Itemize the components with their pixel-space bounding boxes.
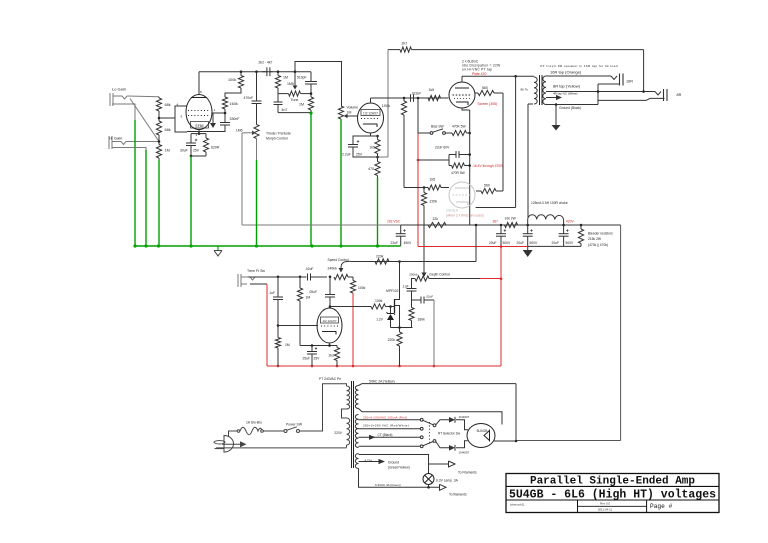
svg-text:Morph Control: Morph Control [266,136,288,140]
svg-text:25V: 25V [356,153,363,157]
svg-text:To Filaments: To Filaments [458,470,477,474]
svg-text:500V: 500V [530,241,539,245]
svg-text:68k: 68k [165,103,171,107]
ground symbol OT [555,105,557,126]
resistor 1M (tone shunt) [308,97,313,110]
resistor 1k5 (grid stopper) [428,95,441,100]
12AX7 cathode bar [363,124,377,127]
lamp 6.3V [423,474,434,485]
svg-text:125mA 0.5H 100R choke: 125mA 0.5H 100R choke [531,201,568,205]
AC plug [224,436,234,453]
transformer OT primary [534,77,537,104]
tube 1/2 12AX7 V2a [358,103,384,133]
resistor bleeder 215k 2W [580,224,583,227]
wire: 12AX7 plate [370,98,372,103]
transformer OT core [539,75,541,105]
node grid junction [158,97,160,98]
resistor 220k (osc tail) [399,328,401,333]
svg-text:8R tap (Yellow): 8R tap (Yellow) [553,83,581,88]
svg-text:220V: 220V [334,431,343,435]
svg-text:22k: 22k [433,217,439,221]
wire: trem tip [248,276,278,278]
svg-text:560: 560 [482,86,488,90]
svg-text:290+0+290VAC 195mA (Red): 290+0+290VAC 195mA (Red) [363,415,407,419]
svg-text:.02uF: .02uF [426,295,434,299]
svg-text:2011-04-11: 2011-04-11 [598,508,613,512]
svg-text:160k: 160k [230,102,238,106]
svg-text:22uF 60V: 22uF 60V [435,146,450,150]
wire: rectifier output [493,440,516,442]
svg-text:To filaments: To filaments [449,492,467,496]
switch RT Selector Sw [420,418,423,421]
svg-text:.02uF: .02uF [305,267,313,271]
svg-text:1M6: 1M6 [236,129,243,133]
tube 5U4GB rectifier [467,424,495,448]
wire: red drop from 100k [352,293,354,366]
wire: tone bottom [278,112,311,114]
resistor 1M (trem grid leak) [277,326,279,338]
svg-text:450V: 450V [404,241,413,245]
wire: 5V top to rectifier B+ [359,384,517,386]
diode 1N4007 upper [436,420,449,425]
capacitor 30uF 25V (cathode bypass) [190,134,192,143]
svg-text:22uF: 22uF [391,241,399,245]
wire: filter ground bus [528,245,581,247]
svg-text:.022uF: .022uF [411,92,421,96]
wire: mains return [346,445,348,448]
resistor 1k5 (grid stopper lower) [423,186,426,189]
wire: HT center tap [359,436,421,438]
tube 6L6GC V3 [449,82,475,108]
wire: 12AX7 cathode [371,133,378,136]
svg-text:1.2V: 1.2V [376,318,384,322]
switch Power SW [264,430,285,432]
wire: screen bus [502,93,504,191]
capacitor 330nF [220,122,230,124]
resistor 22k (rail) [428,222,446,227]
tube 6L6GC ghost (2nd) [449,182,475,208]
svg-text:100k: 100k [382,104,390,108]
wire: B+ drop to trem [475,225,477,262]
wire: Lo tip to 68k [127,95,159,98]
tube EF86 V1 [186,95,212,130]
svg-text:Triode / Pentode: Triode / Pentode [266,132,291,136]
wire: lower grid feed from 12AX7 plate [403,119,405,188]
wire: trem osc B+ line [352,261,476,263]
svg-text:1k5: 1k5 [369,146,375,150]
svg-text:RT Selector Sw: RT Selector Sw [438,432,461,436]
wire: Lo sleeve ground [112,104,135,120]
resistor 220k (osc feed) [375,259,389,264]
resistor 100k (trem) [352,277,354,281]
svg-text:620R: 620R [211,146,220,150]
svg-text:16R: 16R [626,79,633,83]
capacitor 22uF 60V (bias filter) [448,155,450,166]
resistor 100k (EF86 plate load) [240,72,242,76]
svg-text:86.7k: 86.7k [521,88,529,92]
svg-text:280+0+280 VAC (Red/White): 280+0+280 VAC (Red/White) [363,424,409,428]
wire: speed to 100k [348,276,353,278]
svg-text:Hi Gain: Hi Gain [109,136,122,141]
resistor 10k 2W [505,222,518,227]
resistor 1M (trem divider) [299,276,302,279]
wire: plate node run [199,71,311,73]
capacitor 4n7 [277,93,279,102]
wire: 6.3V ground tap [359,461,379,463]
wire: to depth control wiper [423,206,425,273]
svg-text:100k: 100k [228,78,236,82]
svg-text:(Green/Yellow): (Green/Yellow) [388,466,410,470]
wire: 8R jack sleeve [598,99,646,101]
svg-text:CT (Black): CT (Black) [378,433,393,437]
svg-text:4n7: 4n7 [282,108,288,112]
svg-text:Trem Ft Sw: Trem Ft Sw [247,269,265,273]
svg-text:2k7: 2k7 [402,42,408,46]
ground symbol main bus [217,246,219,251]
resistor 160k [222,97,227,109]
svg-text:MPF102: MPF102 [386,289,399,293]
wire: 16R tap [546,75,611,77]
svg-text:.1uF: .1uF [402,285,409,289]
inductor choke 125mA [527,220,529,226]
svg-text:10k 2W: 10k 2W [505,217,517,221]
resistor 100k (trem out) [371,304,386,309]
wire: red bias rail [417,133,419,247]
wire: trem plate out [329,305,332,308]
arrow screen tap [212,113,214,123]
wire: mains to PT [300,384,344,431]
svg-text:2nd 6L6: 2nd 6L6 [446,209,458,213]
pot 1M6 Triode/Pentode morph [254,125,259,139]
svg-text:25V: 25V [314,357,321,361]
svg-text:510pF: 510pF [297,76,307,80]
wire: to filaments upper [429,463,449,465]
svg-text:330nF: 330nF [230,117,240,121]
wire: Lo jack diagonal to 1M node [130,99,159,142]
resistor 470R 5W (bias bleed) [452,163,465,168]
capacitor 2.2uF 25V bypass [353,136,378,145]
wire: 1M to green ground [158,158,160,160]
svg-text:.05uF: .05uF [309,290,317,294]
wire: red bias to filters [418,246,528,248]
svg-text:292 VDC: 292 VDC [387,220,401,224]
svg-text:500V: 500V [566,241,575,245]
svg-text:tubenoob11: tubenoob11 [510,503,525,507]
svg-text:367: 367 [492,220,498,224]
svg-text:Screen (305): Screen (305) [478,102,498,106]
svg-text:Bleeder resistors: Bleeder resistors [588,232,613,236]
wire: NFB top run to 2k7 [388,49,400,51]
svg-text:-16.4V through 470R: -16.4V through 470R [472,164,503,168]
capacitor 20uF 500V (filter 4) [563,225,565,234]
svg-text:Tune: Tune [291,98,299,102]
svg-text:68k: 68k [165,128,171,132]
svg-text:25V: 25V [193,149,200,153]
speaker jack 8R [655,92,661,96]
svg-text:100k: 100k [358,286,366,290]
svg-text:215k 2W: 215k 2W [588,237,602,241]
resistor 470 (NFB leg) [377,157,379,162]
svg-text:20uF: 20uF [517,241,525,245]
svg-text:PT 240VAC Pri: PT 240VAC Pri [319,377,341,381]
wire: cathode to green ground [191,155,206,157]
wire: green ground from volume [340,119,342,246]
wire: HT tap 4 [359,445,421,447]
wire: OT primary bottom to B+ node [528,103,533,105]
capacitor 470nF [256,72,258,101]
capacitor .022uF coupling [410,94,412,102]
wire: HT tap 1 [359,419,421,421]
svg-text:500V: 500V [503,241,512,245]
wire: Hi sleeve ground [112,148,146,151]
wire: NFB drop at right [643,50,645,92]
wire: 6.3V top tap [359,455,429,474]
transformer PT 5V winding [355,386,358,409]
svg-text:470K 5W: 470K 5W [452,125,466,129]
wire: screen node to rail (gray) [241,133,243,225]
wire: trem out drop [433,300,435,366]
transformer PT primary [343,384,347,386]
svg-text:240kb: 240kb [328,266,337,270]
svg-text:1N4007: 1N4007 [459,415,470,419]
svg-text:25uF: 25uF [303,357,311,361]
svg-text:1M: 1M [347,111,352,115]
wire: 4R stub [546,97,556,99]
svg-text:2k2: 2k2 [329,354,335,358]
svg-text:20uF: 20uF [489,241,497,245]
svg-text:Bias SW: Bias SW [431,125,445,129]
svg-text:250kb: 250kb [409,273,418,277]
wire: 330nF to grid return [187,125,225,132]
grid shield box EF86 [175,106,187,132]
wire: red ground bus trem [267,365,501,367]
svg-text:Parallel Single-Ended Amp: Parallel Single-Ended Amp [530,476,695,488]
svg-text:470nF: 470nF [244,96,254,100]
wire: 6L6 cathode drop [462,108,470,110]
svg-text:560: 560 [484,184,490,188]
capacitor 25uF 25V (trem cathode) [311,346,313,352]
wire: NFB vertical to 12AX7 cathode [387,50,389,157]
wire: bias feed vertical [417,98,419,133]
resistor 100k (12AX7 plate load) [401,101,406,115]
wire: red supply vertical [500,247,502,367]
svg-text:EF86: EF86 [195,124,203,128]
svg-text:1/2 12AX7: 1/2 12AX7 [322,319,336,323]
resistor 2k2 (trem cathode) [336,346,338,348]
capacitor .1uF (depth) [412,279,416,289]
diode 1N4007 lower [436,442,449,448]
wire: pin1 screen line [212,112,225,114]
wire: grid line to EF86 [159,117,175,119]
capacitor .02uF (trem out) [412,299,422,301]
svg-text:6.3V Lamp .3A: 6.3V Lamp .3A [436,478,459,482]
wire: plate bus to ghost plate [515,76,517,207]
EF86 grid dots [188,110,210,112]
svg-text:Lo Gain: Lo Gain [112,87,126,92]
svg-text:Depth Control: Depth Control [430,273,451,277]
wire: tone out riser [295,62,342,107]
svg-text:470: 470 [368,167,374,171]
wire: EF86 plate up [198,72,200,95]
node 1M junction [158,135,160,145]
EF86 label box [191,122,209,129]
svg-text:30uF: 30uF [180,149,188,153]
svg-text:1k5: 1k5 [430,178,436,182]
wire: bias tap to red rail [418,159,449,161]
capacitor 20uF 500V (filter 2) [500,225,502,234]
svg-text:1M: 1M [165,149,170,153]
svg-text:2k2 - 4k7: 2k2 - 4k7 [259,60,273,64]
svg-text:6.3VAC 4A (Green): 6.3VAC 4A (Green) [375,483,401,487]
svg-text:Volume: Volume [347,106,359,110]
resistor 68k (mixer) [156,121,161,135]
wire: green ground drop from Hi sleeve [145,150,147,246]
pot 1M5 Tune [278,88,289,94]
svg-text:1M: 1M [306,296,311,300]
arrow to filaments lower [440,484,447,490]
wire: 5V bottom to rectifier [359,409,503,425]
wire: plate line to 6L6 grid [371,97,449,99]
wire: green ground bus [135,245,401,247]
resistor 2k7 (NFB) [400,47,412,52]
capacitor 22uF 450V (filter 1) [400,225,402,234]
svg-text:(when 2 x 6V6s are used): (when 2 x 6V6s are used) [446,213,484,217]
svg-text:Plate 420: Plate 420 [472,72,486,76]
wire: tune right to 1M [301,93,312,95]
switch Bias SW [418,132,430,134]
svg-text:1M: 1M [299,103,304,107]
transformer PT core [351,381,353,468]
svg-text:1N4007: 1N4007 [459,450,470,454]
svg-text:OT Insert 8R speaker in 16R t: OT Insert 8R speaker in 16R tap for 4k l… [540,64,618,68]
capacitor 20uF 500V (filter 3) [527,225,529,234]
resistor 620R (EF86 cathode) [205,134,207,138]
svg-text:Ground (Black): Ground (Black) [559,106,581,110]
wire: EF86 cathode [198,130,200,134]
svg-text:1k5: 1k5 [429,88,435,92]
wire: trem sleeve to red bus [250,283,267,285]
svg-text:1/2 12AX7: 1/2 12AX7 [363,111,378,115]
wire: sleeve drop [597,84,599,105]
wire: 8R tap [546,91,655,93]
svg-text:5U4GB - 6L6 (High HT) voltages: 5U4GB - 6L6 (High HT) voltages [509,489,716,502]
wire: NFB top run to speaker 8R tap [412,49,644,51]
capacitor 0.1uF (trem) [277,277,279,297]
wire: ground tap [546,104,598,106]
transformer OT secondary [543,76,546,105]
transformer PT HT winding [355,415,358,448]
resistor 1M (input load) [156,145,161,159]
resistor 1k5 (cathode) [375,140,380,154]
wire: trem grid line [278,325,318,327]
wire: green ground from 470 [377,176,379,178]
wire: depth to red supply [429,278,480,280]
svg-text:5U4GB: 5U4GB [477,429,489,433]
svg-text:1A Slo-Blo: 1A Slo-Blo [246,421,262,425]
ground symbol filters [527,246,529,250]
wire: B+ from rectifier riser [620,225,622,441]
diode zener 1.2V [390,307,392,314]
wire: 6L6 plate to OT [461,76,463,82]
svg-text:Page #: Page # [650,503,673,510]
svg-text:(470k || 470k): (470k || 470k) [588,243,608,247]
svg-text:470R 5W: 470R 5W [451,171,466,175]
pot Volume 1M [338,106,343,119]
title block frame [506,474,719,513]
svg-text:220k: 220k [376,254,384,258]
wire: morph wiper to rail [242,132,246,134]
wire: green ground drop from Lo sleeve [134,120,136,246]
svg-text:Rev 0.0: Rev 0.0 [600,502,610,506]
tube 1/2 12AX7 V2b (trem) [317,308,342,343]
svg-text:.1uF: .1uF [268,291,275,295]
svg-text:2.2uF: 2.2uF [342,153,351,157]
wire: volume wiper to grid [348,115,358,117]
svg-text:100k: 100k [375,299,383,303]
svg-text:220k: 220k [430,200,438,204]
wire: trem cathode [329,343,331,346]
svg-text:1M: 1M [285,343,290,347]
resistor 560 (screen lower) [476,190,481,192]
resistor 560 (screen upper) [475,92,478,94]
wire: osc bottom [391,327,413,329]
wire: HT tap 2 [359,428,421,430]
wire: B+ rail [401,224,621,226]
svg-text:180k: 180k [418,318,426,322]
resistor 68k (grid stopper Lo) [156,98,161,111]
capacitor .05uF (plate feed) [329,276,332,279]
svg-text:20uF: 20uF [552,241,560,245]
resistor 1M (tone) [277,72,279,76]
svg-text:420V: 420V [566,220,575,224]
wire: morph bottom to green [256,139,258,161]
wire: 100k to 160k column [225,88,241,97]
speaker jack 16R [611,76,617,80]
svg-text:1M: 1M [283,76,288,80]
resistor 220k (trem depth feed) [423,188,425,193]
capacitor .02uF (speed series) [278,276,307,278]
resistor 470K 5W (bias) [446,132,453,134]
wire: 6.3V bottom [359,469,440,488]
svg-text:8R: 8R [677,93,682,97]
EF86 plate bar [191,97,207,99]
wire: green ground from tone [310,113,312,246]
svg-text:220k: 220k [388,338,396,342]
svg-text:4R tap NC (White): 4R tap NC (White) [553,92,578,96]
wire: Hi tip to 1M node [126,141,159,143]
svg-text:Power SW: Power SW [286,423,303,427]
svg-text:16R tap (Orange): 16R tap (Orange) [550,70,582,75]
svg-text:Ground: Ground [388,461,399,465]
transformer PT 6.3V winding [355,454,358,469]
resistor 180k [409,308,414,321]
wire: 16R sleeve [598,83,620,85]
